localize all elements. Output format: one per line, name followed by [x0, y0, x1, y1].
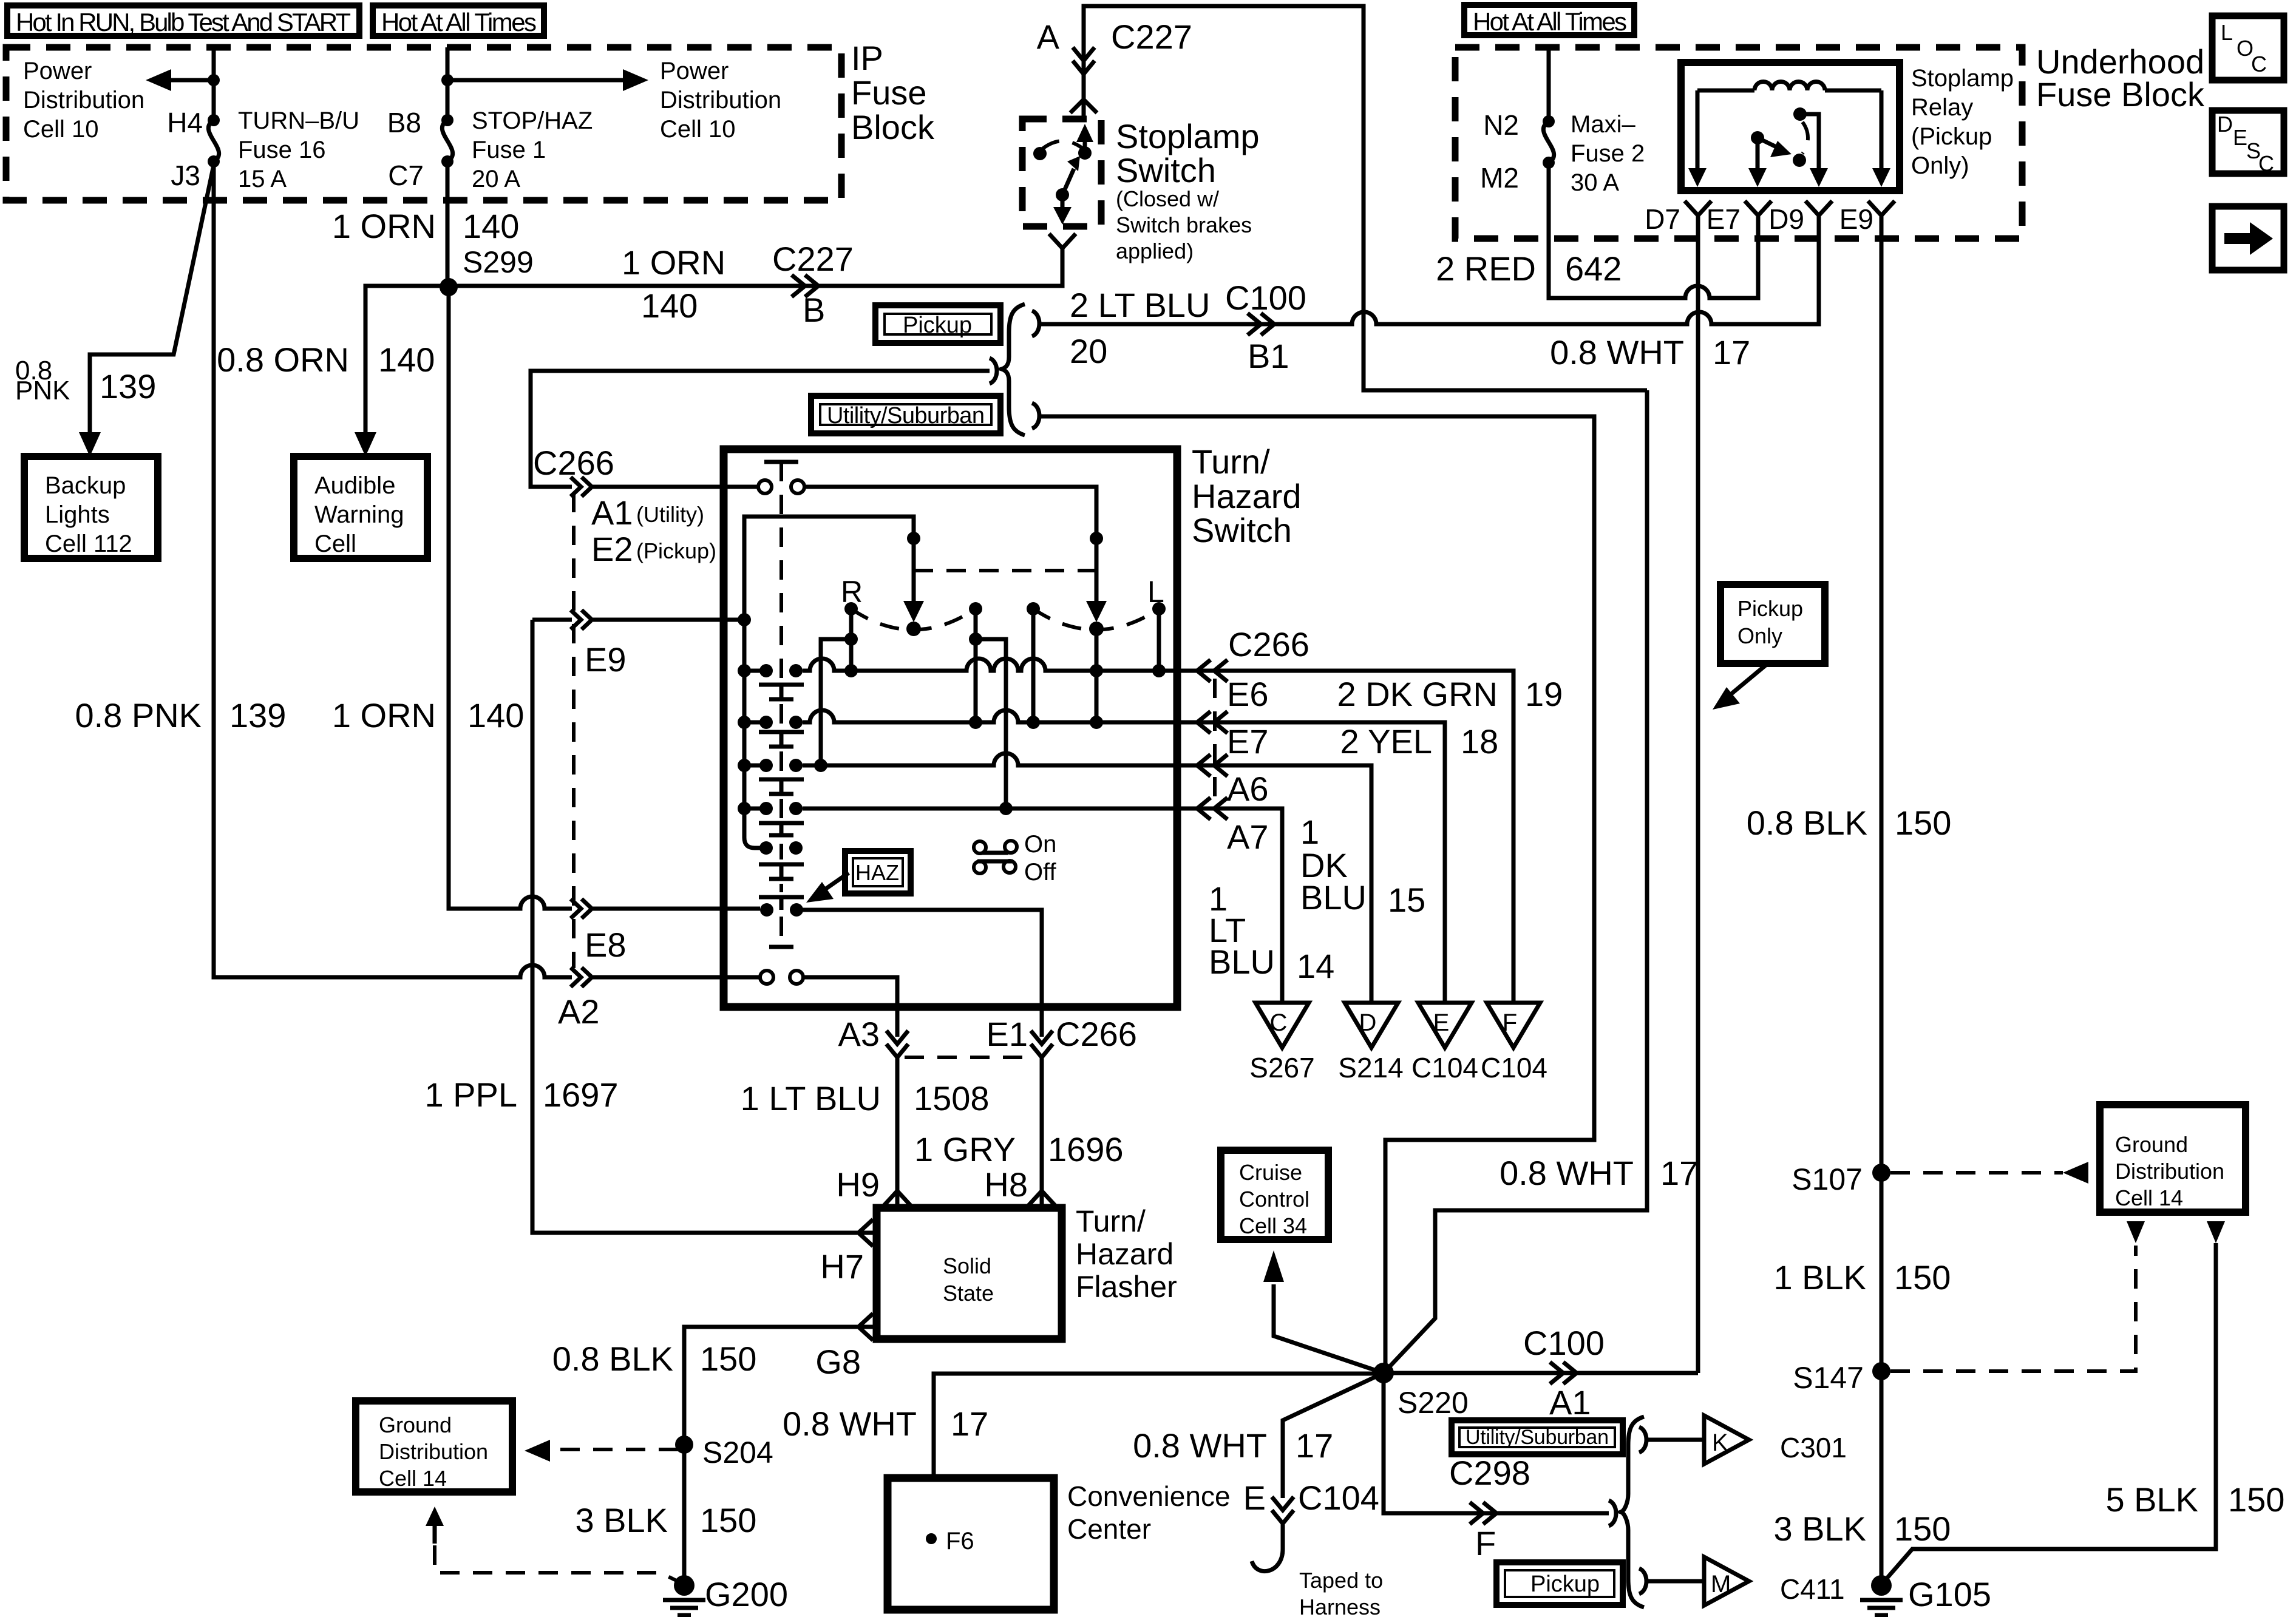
IP fuse block dashed box: [6, 47, 841, 200]
svg-text:E: E: [1243, 1479, 1266, 1517]
wire J3 down (0.8 PNK 139) to A2: [214, 161, 572, 977]
wire S299 down to E8 (1 ORN 140): [449, 287, 572, 909]
svg-text:E2: E2: [591, 530, 633, 568]
wire to M: [1646, 1579, 1704, 1584]
arrow into audible warning box: [355, 432, 376, 456]
pin E8 chevron: [571, 899, 592, 918]
switch row 2 (E7): [744, 710, 1445, 1003]
C298 feed brace: [1609, 1500, 1616, 1526]
svg-text:Cell 10: Cell 10: [23, 116, 99, 143]
svg-text:15: 15: [1388, 881, 1425, 919]
svg-text:Cruise: Cruise: [1239, 1160, 1302, 1185]
svg-text:J3: J3: [171, 160, 200, 191]
forward arrow box: [2212, 206, 2284, 270]
svg-text:S107: S107: [1792, 1162, 1863, 1196]
R left contact drop: [849, 609, 854, 671]
svg-text:H4: H4: [167, 107, 203, 138]
svg-text:17: 17: [951, 1405, 988, 1443]
triangle connector K: [1704, 1415, 1749, 1464]
node at B8 feed: [441, 74, 453, 86]
linkage dashed: [914, 569, 1096, 572]
Backup Lights Cell 112 box: [24, 456, 158, 558]
svg-text:F: F: [1475, 1524, 1496, 1562]
connector C266 face (left, dashed): [572, 493, 576, 968]
L left contact drop: [1031, 609, 1036, 722]
svg-text:Convenience: Convenience: [1067, 1480, 1231, 1512]
stoplamp switch arm: [1056, 188, 1069, 202]
R contact dashed arcs: [851, 609, 976, 630]
svg-text:150: 150: [700, 1340, 756, 1378]
svg-text:2 DK GRN: 2 DK GRN: [1337, 675, 1498, 713]
header box: Hot At All Times (IP): [373, 5, 544, 36]
L center contact: [1089, 622, 1104, 636]
svg-text:C7: C7: [388, 160, 424, 191]
svg-text:139: 139: [100, 367, 156, 405]
svg-text:H8: H8: [984, 1165, 1028, 1204]
Utility/Suburban label box (C298): [1452, 1420, 1623, 1454]
row 3 exit chevron: [1197, 754, 1228, 776]
svg-text:Only: Only: [1737, 623, 1782, 648]
svg-text:Backup: Backup: [45, 472, 126, 499]
svg-text:Only): Only): [1911, 152, 1969, 179]
Convenience Center box: [888, 1478, 1054, 1610]
turn/hazard flasher box: [877, 1208, 1062, 1339]
wire S220 to cruise control arrow: [1274, 1284, 1384, 1373]
Ground Distribution Cell 14 box (left): [356, 1401, 512, 1492]
C298 big brace: [1621, 1417, 1644, 1607]
L left contact: [1027, 602, 1040, 615]
svg-text:PNK: PNK: [15, 376, 70, 405]
bottom of left bus contact pair: [759, 841, 773, 855]
R right contact: [969, 602, 982, 615]
wire to K: [1646, 1438, 1704, 1442]
wire J3 diagonal branch to backup lights: [90, 165, 214, 443]
pin A2 chevron: [571, 968, 592, 987]
svg-text:M2: M2: [1480, 162, 1519, 194]
svg-text:E9: E9: [1839, 203, 1873, 235]
svg-text:20 A: 20 A: [472, 166, 520, 192]
svg-text:1 LT BLU: 1 LT BLU: [741, 1079, 881, 1117]
shaft tick pair 2: [759, 732, 804, 747]
pin A1/E2 chevron: [571, 477, 592, 497]
svg-text:Distribution: Distribution: [660, 87, 781, 114]
svg-text:17: 17: [1713, 333, 1750, 371]
svg-text:Utility/Suburban: Utility/Suburban: [1466, 1426, 1609, 1449]
triangle connector E: [1418, 1003, 1472, 1048]
svg-text:150: 150: [700, 1501, 756, 1539]
svg-text:E: E: [2233, 125, 2247, 150]
turn/hazard switch box: [724, 449, 1177, 1007]
svg-text:C266: C266: [1228, 625, 1309, 663]
ground G200: [674, 1575, 695, 1596]
svg-text:150: 150: [1895, 804, 1951, 842]
svg-text:Hot At All Times: Hot At All Times: [381, 8, 537, 36]
svg-text:H7: H7: [820, 1247, 864, 1286]
connector C266 face (right, dashed): [1213, 679, 1217, 807]
svg-text:C227: C227: [772, 240, 854, 278]
svg-text:14: 14: [1297, 947, 1334, 985]
underhood fuse block dashed box: [1455, 47, 2022, 239]
svg-text:140: 140: [378, 341, 435, 379]
svg-text:2 YEL: 2 YEL: [1340, 722, 1432, 761]
svg-text:Stoplamp: Stoplamp: [1116, 117, 1260, 155]
connector C100 pin B1 chevron: [1248, 313, 1274, 335]
R left L-bend drop: [821, 639, 851, 765]
wire stoplamp top to off-page (A C227): [1084, 6, 1647, 390]
svg-text:Cell 112: Cell 112: [45, 531, 132, 557]
svg-text:0.8 BLK: 0.8 BLK: [552, 1340, 673, 1378]
relay fixed contact to D9: [1793, 107, 1807, 121]
Pickup label box: [875, 305, 1000, 343]
svg-text:Pickup: Pickup: [1737, 596, 1803, 621]
relay coil pin E9: [1880, 90, 1884, 175]
wire flasher G8 to ground: [684, 1327, 877, 1577]
Maxi-Fuse 2 30A: [1543, 115, 1555, 127]
svg-text:Pickup: Pickup: [1530, 1571, 1600, 1597]
relay coil: [1697, 82, 1881, 91]
svg-text:S267: S267: [1249, 1052, 1314, 1083]
wire E9 riser row: [744, 517, 914, 620]
svg-text:0.8 BLK: 0.8 BLK: [1747, 804, 1867, 842]
connector C227 pin B chevron: [792, 275, 818, 297]
svg-text:F: F: [1503, 1009, 1517, 1036]
svg-text:1 ORN: 1 ORN: [332, 696, 436, 734]
svg-text:1 GRY: 1 GRY: [914, 1130, 1016, 1168]
svg-text:S214: S214: [1338, 1052, 1403, 1083]
svg-text:A3: A3: [838, 1015, 880, 1053]
wire S220 to E/C104 stub: [1283, 1373, 1384, 1498]
wire Utility branch to S220 riser: [1039, 416, 1594, 1373]
svg-text:Lights: Lights: [45, 501, 110, 528]
svg-text:Hot At All Times: Hot At All Times: [1473, 7, 1627, 36]
switch row 4 (A7): [744, 808, 1282, 1003]
dashed link S107 to ground distribution: [1890, 1171, 2063, 1175]
svg-text:1697: 1697: [543, 1076, 619, 1114]
Pickup Only box: [1720, 585, 1825, 663]
L contact dashed arcs: [1033, 609, 1159, 630]
shaft end tick: [769, 945, 793, 949]
row 2 exit chevron: [1197, 711, 1228, 733]
pin A3 chevron: [886, 1031, 908, 1057]
wire top edge to maxi fuse: [1547, 47, 1551, 121]
connector C100 pin A1 chevron: [1550, 1362, 1577, 1384]
wire M2 to relay E7 (2 RED 642): [1549, 163, 1758, 298]
svg-text:0.8 ORN: 0.8 ORN: [217, 341, 349, 379]
shaft tick pair 1: [759, 685, 804, 699]
svg-text:E6: E6: [1227, 675, 1269, 713]
wire from top edge to fuse 16: [212, 47, 216, 120]
brace on Pickup branch: [1032, 311, 1039, 336]
wire C7 to S299: [446, 161, 450, 287]
arrow into backup lights box: [79, 432, 101, 456]
svg-text:150: 150: [1894, 1510, 1951, 1548]
svg-text:G200: G200: [705, 1575, 788, 1613]
stoplamp switch contacts: [1033, 147, 1047, 160]
shaft tick 6: [759, 897, 804, 910]
svg-text:5 BLK: 5 BLK: [2105, 1480, 2198, 1519]
connector C298 pin F chevron: [1470, 1502, 1496, 1524]
svg-text:Distribution: Distribution: [2115, 1159, 2224, 1184]
svg-text:0.8 WHT: 0.8 WHT: [1550, 333, 1684, 371]
svg-text:Solid: Solid: [943, 1253, 991, 1278]
dashed link S204 to ground distribution: [549, 1448, 678, 1451]
inline connector big brace: [1002, 304, 1025, 435]
svg-text:Switch: Switch: [1116, 151, 1216, 189]
wire E8 entering switch: [593, 907, 760, 911]
svg-text:Power: Power: [660, 58, 729, 84]
shaft tick pair 4: [759, 823, 804, 835]
row 4 exit chevron: [1197, 798, 1228, 819]
relay coil pin D7: [1696, 90, 1700, 175]
svg-text:139: 139: [229, 696, 286, 734]
Pickup label box (C298): [1496, 1562, 1623, 1605]
HAZ row wire to E1: [803, 910, 1042, 1037]
svg-text:0.8 WHT: 0.8 WHT: [1133, 1426, 1267, 1465]
svg-text:C411: C411: [1780, 1573, 1845, 1605]
svg-text:19: 19: [1525, 675, 1563, 713]
svg-text:Switch brakes: Switch brakes: [1116, 212, 1252, 237]
A1/E2 row contact circles: [758, 480, 772, 493]
On/Off legend: [974, 831, 1057, 886]
flasher H9 female connector: [884, 1191, 911, 1205]
svg-text:Warning: Warning: [314, 501, 404, 528]
svg-text:0.8 WHT: 0.8 WHT: [1500, 1154, 1634, 1192]
svg-text:E7: E7: [1707, 203, 1741, 235]
svg-text:A2: A2: [558, 992, 600, 1031]
actuator shaft top tick: [764, 460, 798, 464]
svg-text:Pickup: Pickup: [903, 313, 972, 338]
brace on K branch: [1639, 1427, 1646, 1453]
svg-text:B8: B8: [387, 107, 421, 138]
svg-text:A7: A7: [1227, 818, 1269, 856]
svg-text:HAZ: HAZ: [855, 860, 899, 885]
svg-text:1696: 1696: [1048, 1130, 1124, 1168]
svg-text:BLU: BLU: [1209, 943, 1275, 981]
svg-text:1 BLK: 1 BLK: [1773, 1258, 1866, 1297]
wire ground distribution to G105 (5 BLK 150): [1884, 1243, 2216, 1582]
L center contact drop: [1095, 629, 1099, 722]
svg-text:Flasher: Flasher: [1076, 1270, 1177, 1304]
relay contact dashed travel arc: [1802, 122, 1808, 154]
actuator shaft dashed: [779, 462, 783, 944]
HAZ row contacts: [760, 903, 773, 917]
svg-text:E: E: [1433, 1009, 1450, 1036]
wire S220 down to C298 F: [1384, 1373, 1609, 1513]
svg-text:A1: A1: [1549, 1383, 1591, 1422]
svg-text:2 LT BLU: 2 LT BLU: [1070, 286, 1210, 324]
wire A1/E2 feed riser: [531, 371, 990, 487]
flasher G8 female connector: [858, 1314, 873, 1340]
pin E9 chevron: [571, 610, 592, 629]
svg-text:H9: H9: [836, 1165, 880, 1204]
svg-text:L: L: [2221, 20, 2233, 45]
pin E chevron (down): [1272, 1497, 1294, 1524]
svg-text:On: On: [1024, 831, 1056, 858]
svg-text:C104: C104: [1481, 1052, 1547, 1083]
svg-text:S204: S204: [702, 1436, 773, 1470]
wire S299 right to stoplamp switch (1 ORN 140): [449, 251, 1062, 286]
splice S107: [1872, 1164, 1890, 1182]
svg-text:0.8 PNK: 0.8 PNK: [75, 696, 202, 734]
relay armature to E7: [1751, 131, 1764, 144]
wire S220 to relay D7 via C100 A1: [1384, 1371, 1698, 1375]
svg-text:150: 150: [2228, 1480, 2284, 1519]
svg-text:Fuse: Fuse: [851, 73, 927, 112]
svg-text:1: 1: [1300, 813, 1319, 851]
taped stub hook: [1252, 1524, 1283, 1571]
svg-text:IP: IP: [851, 39, 883, 77]
svg-text:C298: C298: [1449, 1454, 1530, 1492]
svg-text:G105: G105: [1908, 1575, 1991, 1613]
brace on Utility branch: [1032, 403, 1039, 429]
svg-text:20: 20: [1070, 332, 1107, 370]
svg-text:K: K: [1712, 1429, 1728, 1456]
svg-text:642: 642: [1565, 249, 1622, 288]
svg-text:A6: A6: [1227, 770, 1269, 808]
svg-text:STOP/HAZ: STOP/HAZ: [472, 107, 593, 134]
wire relay D7 to S220 (0.8 WHT 17): [1696, 223, 1700, 1373]
L right contact drop: [1157, 609, 1161, 671]
header box: Hot In RUN, Bulb Test And START: [7, 5, 359, 36]
LOC box: [2212, 16, 2284, 80]
svg-text:Off: Off: [1024, 859, 1057, 886]
svg-text:F6: F6: [946, 1528, 974, 1554]
dashed arrow into ground distribution box from below: [433, 1519, 437, 1544]
svg-text:C: C: [1270, 1009, 1288, 1036]
svg-text:Harness: Harness: [1299, 1595, 1381, 1617]
svg-text:E8: E8: [585, 926, 627, 964]
row 1 exit chevron: [1197, 660, 1228, 682]
svg-text:2 RED: 2 RED: [1436, 249, 1536, 288]
L right contact: [1152, 602, 1166, 615]
svg-text:TURN–B/U: TURN–B/U: [238, 107, 359, 134]
R left contact: [844, 602, 858, 615]
Cruise Control Cell 34 box: [1221, 1150, 1328, 1239]
ground distribution arrow 2: [2207, 1221, 2225, 1243]
svg-text:17: 17: [1660, 1154, 1698, 1192]
header box: Hot At All Times (Underhood): [1464, 5, 1634, 36]
node E9 join: [738, 613, 751, 626]
svg-text:D: D: [2217, 112, 2233, 137]
fuse TURN-B/U Fuse 16 15A: [208, 114, 220, 126]
svg-text:Distribution: Distribution: [379, 1439, 488, 1464]
shaft tick pair 3: [759, 779, 804, 794]
svg-text:C266: C266: [533, 444, 614, 482]
DESC box: [2212, 110, 2284, 176]
triangle connector D: [1345, 1003, 1398, 1048]
connector C266 face (bottom, dashed): [905, 1056, 1034, 1059]
svg-text:1508: 1508: [914, 1079, 990, 1117]
A2 row circles: [760, 971, 773, 984]
svg-text:G8: G8: [815, 1343, 861, 1381]
splice S299: [440, 278, 458, 296]
svg-text:Ground: Ground: [2115, 1132, 2188, 1157]
switch row 3 (A6): [744, 753, 1371, 1003]
HAZ label box: [845, 851, 911, 893]
svg-text:1 ORN: 1 ORN: [332, 207, 436, 245]
svg-text:150: 150: [1894, 1258, 1951, 1297]
svg-text:1 ORN: 1 ORN: [622, 243, 725, 282]
female half at stoplamp top: [1070, 100, 1097, 113]
svg-text:Control: Control: [1239, 1187, 1309, 1212]
svg-text:17: 17: [1296, 1426, 1333, 1465]
svg-text:E7: E7: [1227, 722, 1269, 761]
wire E9/H7 (1 PPL 1697): [532, 620, 877, 1233]
svg-text:C: C: [2258, 151, 2274, 176]
svg-text:Relay: Relay: [1911, 94, 1973, 121]
A2 row wire to A3: [803, 977, 897, 1037]
wire from top edge to fuse 1: [446, 47, 450, 120]
wire relay E9 to G105 (0.8 BLK 150): [1880, 223, 1884, 1585]
svg-text:applied): applied): [1116, 239, 1194, 263]
triangle connector F: [1487, 1003, 1540, 1048]
svg-text:C104: C104: [1411, 1052, 1478, 1083]
R right L-bend drop: [976, 639, 1006, 808]
svg-text:S220: S220: [1398, 1386, 1469, 1420]
svg-text:Hazard: Hazard: [1192, 477, 1302, 515]
svg-text:Utility/Suburban: Utility/Suburban: [827, 403, 985, 429]
wire A1/E2 row inside switch: [593, 487, 1096, 538]
fuse STOP/HAZ Fuse 1 20A: [441, 114, 453, 126]
R center contact: [906, 622, 921, 636]
svg-text:A1: A1: [591, 493, 633, 532]
R right contact drop: [974, 609, 978, 722]
svg-text:0.8 WHT: 0.8 WHT: [783, 1405, 917, 1443]
svg-text:Taped to: Taped to: [1299, 1568, 1383, 1593]
svg-text:B1: B1: [1248, 337, 1289, 375]
svg-text:Ground: Ground: [379, 1412, 452, 1437]
wire A2 entering switch: [593, 975, 760, 980]
wire B1 2 LT BLU 20 to relay D9: [1039, 223, 1819, 324]
svg-text:(Pickup): (Pickup): [636, 538, 716, 563]
svg-text:Stoplamp: Stoplamp: [1911, 65, 2014, 92]
L arrow: [1090, 532, 1103, 545]
stoplamp switch dashed box: [1022, 119, 1101, 226]
Pickup Only arrow: [1728, 663, 1768, 697]
svg-text:N2: N2: [1483, 109, 1519, 141]
svg-text:Turn/: Turn/: [1076, 1204, 1146, 1238]
svg-text:15 A: 15 A: [238, 166, 287, 192]
switch vertical bus: [744, 517, 760, 848]
brace on M branch: [1639, 1568, 1646, 1594]
R arrow: [907, 532, 920, 545]
svg-text:E1: E1: [987, 1015, 1028, 1053]
Audible Warning Cell box: [294, 456, 427, 558]
relay moving contact: [1793, 154, 1806, 167]
svg-text:C227: C227: [1111, 18, 1192, 56]
svg-text:Hazard: Hazard: [1076, 1237, 1173, 1271]
wire convenience center to S220 (0.8 WHT 17): [934, 1374, 1384, 1478]
svg-text:C104: C104: [1298, 1479, 1379, 1517]
svg-text:C100: C100: [1523, 1324, 1605, 1362]
connector C227 pin A chevron (double, pointing down): [1073, 47, 1095, 74]
svg-text:E9: E9: [585, 640, 627, 679]
pin E1 chevron: [1031, 1031, 1053, 1057]
inline connector brace (feed): [990, 358, 997, 384]
node at H4 feed: [208, 74, 220, 86]
svg-text:B: B: [803, 291, 825, 329]
svg-text:D: D: [1359, 1009, 1377, 1036]
svg-text:Block: Block: [851, 108, 935, 146]
svg-text:140: 140: [641, 286, 698, 325]
svg-text:(Pickup: (Pickup: [1911, 123, 1992, 150]
shaft tick pair 5: [759, 864, 804, 879]
wire brake feed riser (A/C227 to S220, 0.8 WHT 17): [1384, 390, 1647, 1373]
flasher H8 female connector: [1028, 1191, 1055, 1205]
svg-text:M: M: [1711, 1571, 1731, 1598]
arrow to Power Distribution left: [163, 78, 214, 83]
svg-text:Fuse 1: Fuse 1: [472, 137, 546, 163]
